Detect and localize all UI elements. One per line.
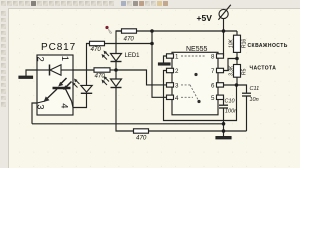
wire LED1-LED2 xyxy=(115,62,117,79)
svg-text:1: 1 xyxy=(59,56,70,61)
LED1 arrows xyxy=(103,52,110,60)
svg-text:ЧАСТОТА: ЧАСТОТА xyxy=(250,66,277,72)
wire PC817 pin2 to ground xyxy=(26,70,37,77)
svg-text:C10: C10 xyxy=(225,99,236,105)
wire +5V rail y31 xyxy=(116,30,237,32)
opto diode xyxy=(49,65,51,76)
wire C11 bottom xyxy=(246,97,248,132)
svg-text:2: 2 xyxy=(175,68,179,75)
wire R3 to PC817 pin1 xyxy=(73,69,94,71)
PC817 pin numbers rotated xyxy=(35,56,71,110)
capacitor C10 xyxy=(219,104,228,106)
resistor R4 xyxy=(134,129,149,133)
left toolbar xyxy=(9,9,300,168)
wire pin6 to C11 xyxy=(224,85,247,93)
wire R2 left to LED3 xyxy=(87,44,90,86)
PC817 box xyxy=(37,55,73,115)
svg-text:470: 470 xyxy=(95,73,106,80)
svg-text:2: 2 xyxy=(35,57,46,62)
svg-text:+5V: +5V xyxy=(197,13,213,23)
wire ground rail A xyxy=(32,123,224,125)
svg-text:470: 470 xyxy=(91,46,102,53)
LED3 xyxy=(81,85,92,92)
svg-text:3,3K: 3,3K xyxy=(229,65,235,76)
wire PC817 pin3 xyxy=(32,103,37,124)
wire rail B LED2 470 xyxy=(116,88,134,131)
LED2 xyxy=(111,79,122,87)
wire +5V drop xyxy=(223,19,225,31)
wire R16 top xyxy=(236,31,238,35)
wire pin5 to C10 xyxy=(223,97,225,104)
ground G2 xyxy=(159,63,171,65)
junction dots xyxy=(114,29,239,133)
svg-text:8: 8 xyxy=(211,54,215,61)
wire pin8 from +5V J1 xyxy=(223,31,225,56)
wire R2 row y43.5 xyxy=(105,43,153,45)
svg-text:3: 3 xyxy=(175,82,179,89)
svg-text:470: 470 xyxy=(124,36,135,43)
svg-text:3: 3 xyxy=(35,104,46,109)
resistor R3 xyxy=(94,68,110,72)
NE555 box xyxy=(172,52,218,115)
wire rail B right xyxy=(149,130,247,132)
wire LED3 to PC817 pin4 xyxy=(73,93,87,107)
ground G1 xyxy=(19,76,33,78)
NE555 internal dashes xyxy=(181,56,206,101)
svg-text:470: 470 xyxy=(136,135,147,142)
capacitor C11 xyxy=(242,92,251,94)
resistor R2 xyxy=(90,41,105,45)
wire +5V column x152 to pin4 xyxy=(152,31,167,97)
wire R16 bottom xyxy=(236,52,238,64)
LED3 arrows xyxy=(73,80,80,88)
svg-text:7: 7 xyxy=(211,68,215,75)
wire R5 bottom xyxy=(236,77,238,85)
NE555 pin numbers xyxy=(175,54,215,102)
svg-text:NE555: NE555 xyxy=(186,46,208,53)
opto arrows xyxy=(61,78,72,88)
LED2 arrows xyxy=(103,77,110,85)
NE555 pin stubs xyxy=(167,54,224,100)
wire LED chain top xyxy=(116,31,122,54)
wire C10 bottom xyxy=(223,109,225,124)
svg-text:5: 5 xyxy=(211,95,215,102)
cursor xyxy=(105,26,108,29)
svg-text:PC817: PC817 xyxy=(41,42,76,53)
wire ground stem xyxy=(223,124,225,137)
wire R3 to junction xyxy=(110,69,116,71)
opto transistor xyxy=(53,87,71,90)
svg-text:10n: 10n xyxy=(250,97,259,103)
svg-text:4: 4 xyxy=(175,95,179,102)
wire junction to NE555 pin3 xyxy=(116,70,167,85)
wire NE555 pin1 ground xyxy=(164,56,167,63)
svg-text:4: 4 xyxy=(59,103,70,108)
svg-text:10K: 10K xyxy=(229,38,235,48)
svg-text:100n: 100n xyxy=(225,109,237,115)
svg-text:C11: C11 xyxy=(250,86,260,92)
LED1 xyxy=(111,54,122,62)
resistor R16 xyxy=(234,35,241,52)
power terminal +5V xyxy=(219,9,228,18)
svg-text:1: 1 xyxy=(175,54,179,61)
top toolbar xyxy=(0,0,300,9)
resistor R5 xyxy=(234,65,241,78)
svg-text:6: 6 xyxy=(211,82,215,89)
wire pin2-pin6 tie xyxy=(164,71,237,121)
svg-text:R5: R5 xyxy=(242,68,248,75)
wire pin7 dogleg xyxy=(224,59,238,71)
ground G3 xyxy=(216,137,231,139)
svg-text:LED1: LED1 xyxy=(125,53,141,59)
resistor R1 xyxy=(122,29,137,33)
svg-text:СКВАЖНОСТЬ: СКВАЖНОСТЬ xyxy=(248,43,288,49)
